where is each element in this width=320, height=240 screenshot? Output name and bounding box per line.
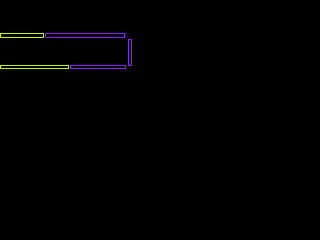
green outline bar A (top-left) <box>0 33 44 38</box>
purple outline bar E (bottom-middle) <box>70 65 126 69</box>
purple outline bar C (vertical, right) <box>128 39 132 66</box>
purple outline bar B (top-middle) <box>45 33 125 38</box>
green outline bar D (bottom-left) <box>0 65 69 69</box>
